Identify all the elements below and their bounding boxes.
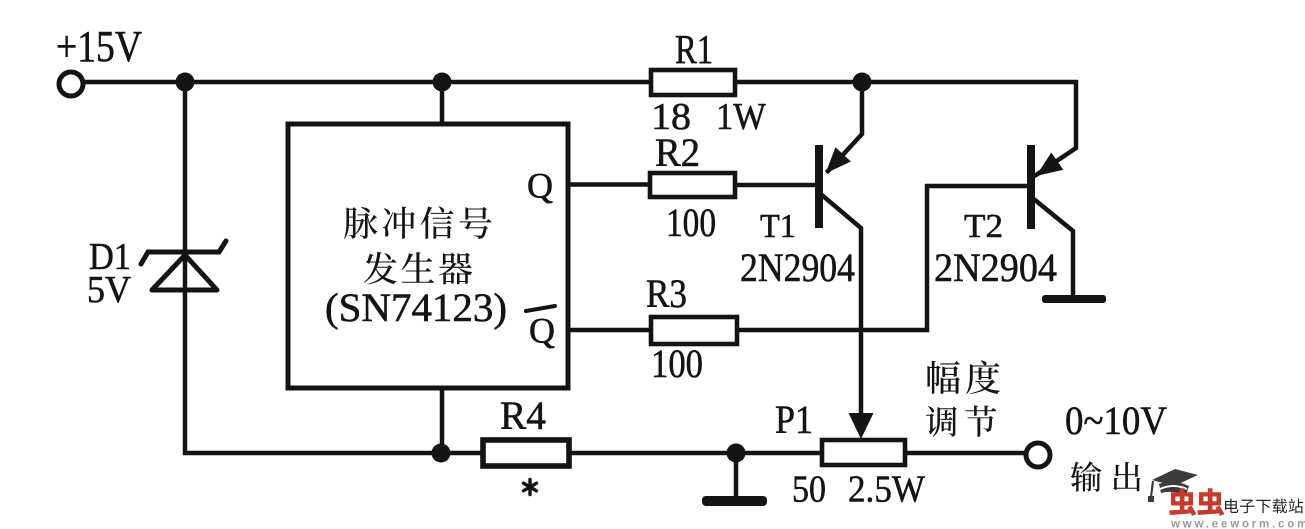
svg-text:T1: T1 xyxy=(760,208,796,245)
svg-text:R4: R4 xyxy=(500,393,546,438)
svg-text:T2: T2 xyxy=(964,208,1003,245)
svg-text:P1: P1 xyxy=(775,397,813,442)
svg-text:50: 50 xyxy=(792,469,826,511)
svg-text:(SN74123): (SN74123) xyxy=(325,285,507,330)
svg-text:2N2904: 2N2904 xyxy=(934,245,1057,290)
svg-text:2N2904: 2N2904 xyxy=(740,245,855,290)
svg-text:100: 100 xyxy=(651,341,703,386)
svg-text:R2: R2 xyxy=(655,130,700,175)
svg-text:1W: 1W xyxy=(716,96,766,138)
svg-text:0~10V: 0~10V xyxy=(1065,398,1167,443)
svg-text:5V: 5V xyxy=(87,269,132,311)
svg-text:2.5W: 2.5W xyxy=(848,469,925,511)
svg-text:www.eeworm.com: www.eeworm.com xyxy=(1170,519,1305,529)
svg-text:+15V: +15V xyxy=(56,22,142,71)
svg-text:R1: R1 xyxy=(675,26,713,72)
svg-text:Q: Q xyxy=(529,311,555,351)
svg-text:100: 100 xyxy=(666,200,716,245)
svg-text:Q: Q xyxy=(527,166,553,206)
svg-text:R3: R3 xyxy=(646,271,687,316)
